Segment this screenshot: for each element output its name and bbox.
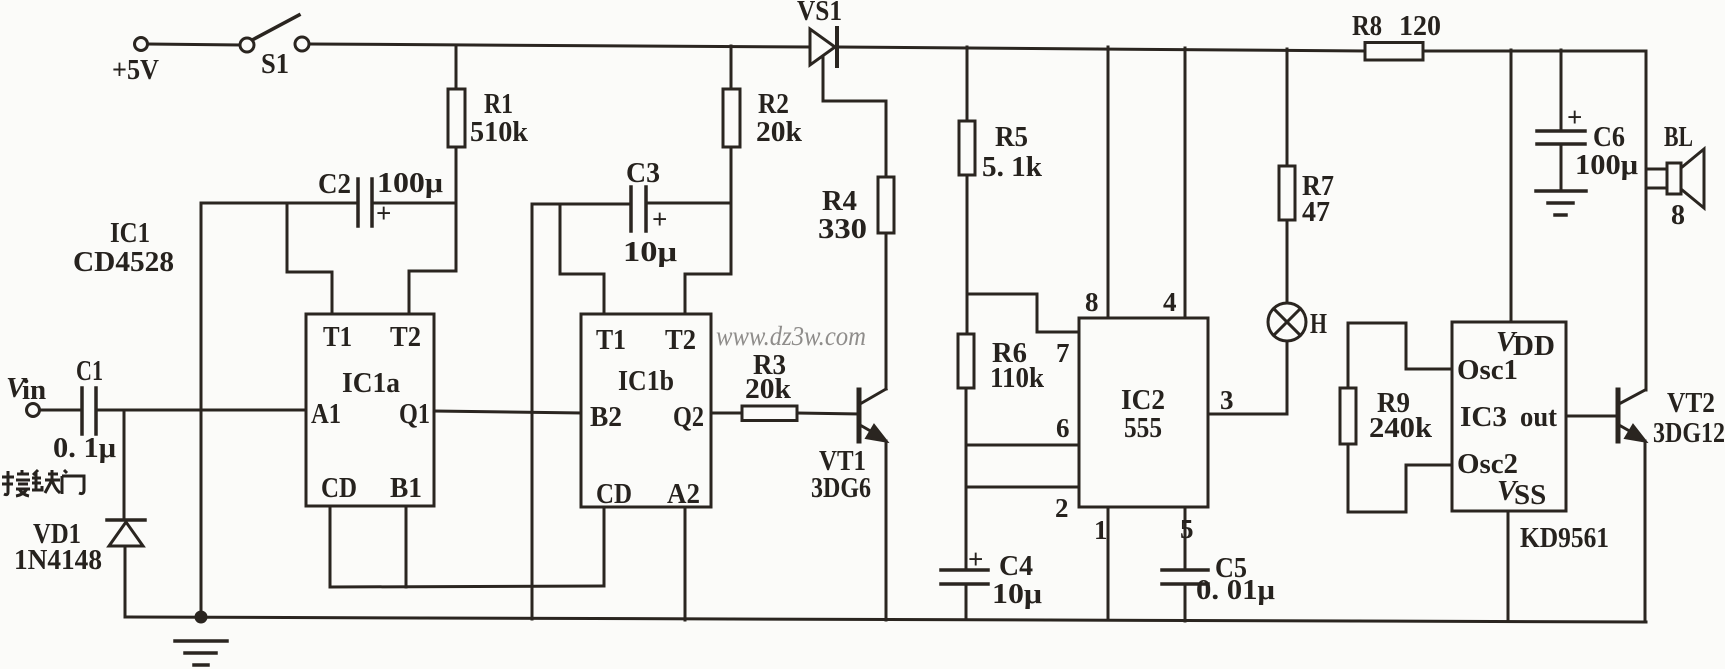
wire CD pin IC1a: [329, 506, 332, 587]
resistor R5: [959, 121, 975, 175]
svg-text:A2: A2: [667, 478, 700, 510]
svg-text:T2: T2: [665, 324, 696, 356]
op-amp IC1a box: [306, 314, 434, 506]
svg-text:+: +: [376, 198, 391, 228]
resistor R7: [1279, 166, 1295, 220]
wire C5 to ground rail: [1184, 584, 1187, 621]
svg-text:A1: A1: [311, 398, 341, 430]
svg-text:DD: DD: [1513, 330, 1555, 362]
svg-text:10μ: 10μ: [623, 236, 678, 268]
wire R1 bottom to C2 node: [455, 147, 458, 203]
wire pin3 of IC2 to lamp: [1208, 341, 1287, 414]
svg-text:8: 8: [1671, 199, 1685, 231]
svg-text:BL: BL: [1664, 121, 1693, 153]
wire C6 top: [1560, 50, 1563, 131]
svg-text:KD9561: KD9561: [1520, 522, 1609, 554]
wire R7 to top rail: [1286, 49, 1289, 166]
wire step to T1 of IC1b: [560, 204, 604, 314]
svg-text:IC1b: IC1b: [618, 365, 674, 397]
svg-text:555: 555: [1124, 412, 1162, 444]
svg-text:www.dz3w.com: www.dz3w.com: [716, 321, 866, 351]
wire R8 to right rail: [1423, 50, 1646, 53]
wire step to T2 of IC1b: [685, 203, 731, 314]
wire VS1 cathode to R8: [838, 47, 1365, 51]
wire B1 pin IC1a: [405, 506, 408, 587]
op-amp IC1b box: [581, 314, 711, 507]
wire R2 top: [730, 46, 733, 89]
svg-text:in: in: [22, 374, 46, 406]
svg-text:5: 5: [1180, 514, 1194, 544]
wire to VD1: [123, 410, 126, 519]
svg-text:0. 01μ: 0. 01μ: [1196, 574, 1276, 606]
svg-text:4: 4: [1163, 287, 1177, 317]
svg-text:S1: S1: [261, 48, 289, 80]
svg-text:T2: T2: [390, 321, 421, 353]
resistor R2: [723, 89, 740, 147]
wire R2 bottom to C3 node: [730, 147, 733, 203]
wire step to T2 of IC1a: [409, 203, 456, 314]
svg-text:20k: 20k: [745, 373, 792, 405]
svg-text:100μ: 100μ: [377, 167, 444, 199]
svg-text:IC1: IC1: [110, 217, 150, 249]
wire C2 right to R1 node: [374, 202, 456, 205]
svg-text:100μ: 100μ: [1575, 149, 1639, 181]
svg-text:R8: R8: [1352, 10, 1382, 42]
wire pin2 of IC2: [966, 486, 1079, 489]
wire R1 top: [455, 45, 458, 89]
capacitor C4: [941, 570, 988, 584]
speaker BL: [1667, 149, 1704, 208]
wire Q1 to B2: [434, 411, 581, 413]
terminal +5V: [135, 38, 148, 51]
svg-text:T1: T1: [596, 324, 626, 356]
svg-text:3DG6: 3DG6: [811, 472, 871, 504]
svg-text:7: 7: [1056, 338, 1070, 368]
capacitor C6: [1537, 131, 1585, 144]
resistor R1: [448, 89, 465, 147]
wire VD1 to ground rail: [124, 546, 127, 617]
svg-text:Osc1: Osc1: [1457, 354, 1518, 386]
resistor R8: [1365, 43, 1423, 61]
svg-text:47: 47: [1302, 196, 1330, 228]
svg-text:R5: R5: [995, 121, 1028, 153]
op-amp IC3 box: [1452, 322, 1566, 511]
wire C6 to ground: [1560, 144, 1563, 191]
ground: [175, 641, 227, 665]
wire bottom rail: [125, 617, 1646, 622]
svg-text:240k: 240k: [1369, 412, 1433, 444]
node ground junction: [196, 612, 206, 622]
svg-text:3: 3: [1220, 385, 1234, 415]
wire C2 left: [201, 202, 356, 205]
lamp H: [1268, 303, 1306, 341]
wire speaker stubs: [1646, 169, 1667, 188]
wire R6 bottom to C4: [965, 388, 968, 570]
svg-text:Q1: Q1: [399, 398, 430, 430]
ground C6: [1536, 191, 1586, 215]
svg-text:IC3: IC3: [1460, 401, 1507, 433]
wire Q2 to R3: [711, 412, 742, 415]
wire S1 to VS1: [309, 44, 810, 47]
svg-text:B1: B1: [390, 472, 422, 504]
svg-text:+: +: [1567, 102, 1582, 132]
svg-text:CD: CD: [596, 478, 632, 510]
wire pin8 of IC2: [1107, 47, 1110, 318]
resistor R6: [958, 334, 974, 388]
capacitor C5: [1162, 570, 1208, 584]
svg-text:H: H: [1310, 308, 1327, 340]
wire pin5 of IC2 to C5: [1184, 507, 1187, 570]
svg-text:0. 1μ: 0. 1μ: [53, 432, 117, 464]
svg-text:T1: T1: [323, 321, 352, 353]
wire pin1 of IC2 to ground rail: [1107, 507, 1110, 620]
wire CD pin IC1b: [603, 507, 606, 586]
svg-text:+5V: +5V: [112, 54, 159, 86]
svg-text:10μ: 10μ: [992, 578, 1043, 610]
transistor VT1: [859, 389, 886, 441]
wire VDD pin of IC3: [1510, 50, 1513, 322]
diode VS1: [810, 28, 837, 66]
svg-text:5. 1k: 5. 1k: [982, 151, 1043, 183]
svg-text:CD: CD: [321, 472, 357, 504]
wire node to R6: [966, 294, 969, 334]
svg-text:SS: SS: [1514, 479, 1546, 511]
wire C3 left: [532, 203, 630, 206]
wire C4 to ground rail: [965, 584, 968, 619]
svg-text:3DG12: 3DG12: [1653, 417, 1725, 449]
resistor R3: [742, 406, 797, 421]
svg-text:IC1a: IC1a: [342, 367, 400, 399]
wire out to VT2 base: [1566, 415, 1618, 418]
resistor R4: [878, 177, 894, 233]
capacitor C3: [631, 187, 646, 231]
wire R4 to VT1 collector: [885, 233, 888, 389]
resistor R9: [1340, 388, 1356, 444]
wire right rail down to VT2 collector: [1645, 51, 1648, 390]
wire lamp to R7: [1286, 220, 1289, 303]
svg-text:+: +: [968, 544, 983, 574]
wire R3 to VT1 base: [797, 413, 859, 414]
wire R5 bottom to node: [966, 175, 969, 294]
svg-text:+: +: [652, 204, 667, 234]
svg-text:VS1: VS1: [797, 0, 842, 27]
svg-text:Q2: Q2: [673, 401, 704, 433]
svg-text:B2: B2: [590, 401, 622, 433]
wire +5V to S1: [148, 44, 240, 45]
wire R9 to Osc2: [1348, 444, 1452, 512]
wire Osc1 to R9: [1348, 323, 1452, 388]
wire ground vertical: [200, 203, 203, 617]
svg-text:8: 8: [1085, 287, 1099, 317]
diode VD1: [107, 520, 145, 546]
wire step to T1 of IC1a: [287, 203, 332, 314]
wire node to pin7 of IC2: [967, 294, 1079, 332]
wire VS1 anode branch to R4: [823, 57, 886, 177]
capacitor C2: [358, 179, 372, 226]
svg-text:VT2: VT2: [1667, 387, 1715, 419]
svg-text:6: 6: [1056, 413, 1070, 443]
wire VSS pin of IC3 to ground rail: [1507, 511, 1510, 621]
svg-text:out: out: [1520, 401, 1557, 433]
wire VT1 emitter to ground rail: [885, 441, 888, 620]
svg-text:CD4528: CD4528: [73, 246, 174, 278]
op-amp IC2 box: [1079, 318, 1208, 507]
wire CD bus: [330, 586, 604, 587]
svg-text:C2: C2: [318, 168, 351, 200]
svg-text:510k: 510k: [470, 116, 529, 148]
wire C1 to A1: [98, 409, 306, 412]
wire pin4 of IC2: [1184, 48, 1187, 318]
svg-text:C1: C1: [76, 355, 103, 387]
transistor VT2: [1618, 390, 1645, 441]
svg-text:330: 330: [818, 213, 867, 245]
terminal Vin: [27, 404, 40, 417]
svg-text:1: 1: [1094, 515, 1108, 545]
svg-text:110k: 110k: [990, 362, 1045, 394]
wire left vertical to ground rail: [531, 204, 534, 619]
label jie-tie-men: [2, 470, 84, 496]
svg-text:120: 120: [1399, 10, 1441, 42]
svg-text:1N4148: 1N4148: [14, 544, 102, 576]
wire Vin to C1: [40, 409, 79, 412]
switch S1: [240, 15, 309, 52]
svg-text:20k: 20k: [756, 116, 803, 148]
wire pin6 of IC2: [966, 444, 1079, 447]
wire VT2 emitter to ground rail: [1644, 441, 1647, 622]
capacitor C1: [82, 388, 96, 434]
wire A2 pin IC1b to ground rail: [684, 507, 687, 620]
wire C3 right to R2 node: [648, 202, 731, 205]
svg-text:C3: C3: [626, 157, 660, 189]
svg-text:2: 2: [1055, 493, 1069, 523]
wire R5 top: [966, 47, 969, 121]
